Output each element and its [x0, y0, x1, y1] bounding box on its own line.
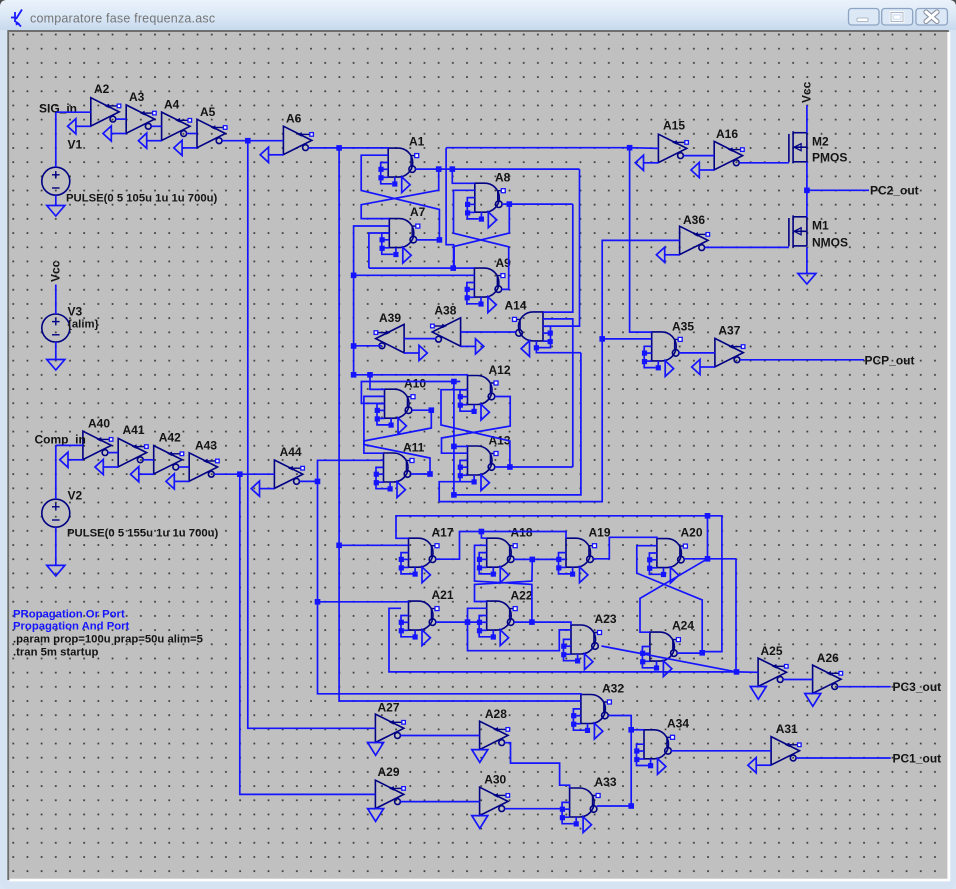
wire A8 out cross to A9 pin1	[454, 204, 509, 268]
nand gate A10	[375, 389, 415, 434]
label A14	[505, 299, 527, 313]
svg-text:A23: A23	[595, 612, 617, 626]
wire A17 out over to A18 and A19	[436, 532, 566, 560]
wire A42 out to A43 in	[179, 466, 190, 468]
buffer A40	[60, 431, 113, 467]
svg-text:V1: V1	[68, 138, 83, 152]
nand gate A34	[634, 730, 674, 775]
label A22	[511, 589, 533, 603]
buffer A25	[750, 658, 788, 699]
wire A20 out row	[684, 558, 736, 560]
wire A20-A24 cross upper	[640, 559, 708, 632]
label A37	[718, 324, 740, 338]
wire A29 out to A30	[400, 801, 479, 803]
buffer A28	[472, 721, 510, 762]
svg-text:A40: A40	[88, 417, 110, 431]
wire A38 out to A39 in	[404, 338, 436, 341]
nand gate A9	[465, 268, 505, 313]
buffer A15	[635, 134, 688, 170]
wire Comp_in to A40	[56, 444, 83, 446]
wire Vcc to M2 drain	[806, 105, 808, 132]
junction A44 net at A21 row	[315, 599, 321, 605]
wire loop down to A20 out node	[707, 516, 709, 559]
ground under V2	[47, 565, 65, 576]
wire A15 net to A15	[630, 147, 659, 150]
junction A43 output node	[237, 471, 243, 477]
svg-text:A29: A29	[378, 765, 400, 779]
junction A36 net at A35 row	[599, 336, 605, 342]
wire V2 top lead	[55, 445, 57, 499]
buffer A6	[260, 126, 313, 162]
wire A5 node down to A27	[248, 141, 376, 729]
wire A23 out slant	[602, 646, 737, 672]
wire A44 out up to A11 pin2	[318, 460, 384, 481]
buffer A2	[68, 98, 121, 134]
junction A1 output node	[436, 166, 442, 172]
svg-text:Vcc: Vcc	[49, 260, 63, 282]
ground under V1	[47, 206, 65, 217]
label A28	[485, 707, 507, 721]
nand gate A20	[647, 539, 687, 584]
junction net353 at A9 row	[351, 273, 357, 279]
nand gate A33	[560, 788, 600, 833]
wire A36 out to M1 gate	[705, 246, 789, 248]
label A15	[663, 119, 685, 133]
wire A21 out to A22 cluster	[436, 621, 480, 623]
wire A30 out to A33 cluster	[505, 808, 563, 810]
directive .param	[13, 634, 203, 646]
svg-text:Propagation And Port: Propagation And Port	[13, 621, 130, 633]
junction A6 output node	[336, 145, 342, 151]
svg-text:M2: M2	[812, 135, 829, 149]
wire V3 top lead	[55, 285, 57, 315]
svg-text:Vcc: Vcc	[800, 81, 814, 103]
svg-text:.param prop=100u prap=50u alim: .param prop=100u prap=50u alim=5	[13, 634, 203, 646]
LTspice icon	[11, 10, 22, 27]
wire A10-A11 cross lower	[364, 396, 430, 474]
comment text line 1	[13, 609, 125, 621]
wire V3 bottom lead	[55, 342, 57, 360]
wire A44 out to node	[299, 480, 317, 482]
wire V2 bottom lead	[55, 527, 57, 565]
label NMOS	[812, 236, 848, 250]
nand gate A19	[556, 538, 596, 583]
net flag Vcc at M2	[800, 81, 814, 103]
wire A14 com to loop	[536, 348, 581, 353]
svg-text:A26: A26	[817, 651, 839, 665]
nand gate A32	[571, 695, 611, 740]
label A38	[434, 304, 456, 318]
label A3	[129, 90, 145, 104]
wire A28 out down to A33	[505, 743, 570, 789]
svg-text:A5: A5	[200, 105, 216, 119]
junction A10 pin1 tap	[367, 372, 373, 378]
buffer A38	[431, 318, 484, 354]
junction A13 pin1 tap	[451, 444, 457, 450]
svg-text:PRopagation Or Port: PRopagation Or Port	[13, 609, 125, 621]
buffer A37	[692, 338, 745, 374]
net flag Vcc at V3	[49, 260, 63, 282]
nand gate A8	[465, 183, 505, 228]
svg-text:A12: A12	[489, 363, 511, 377]
label A8	[495, 171, 511, 185]
value V2	[67, 528, 219, 540]
ground under M1	[798, 274, 816, 285]
label A20	[681, 526, 703, 540]
label A10	[404, 377, 426, 391]
svg-text:A32: A32	[602, 682, 624, 696]
nand gate A12	[458, 376, 498, 421]
junction A20 output node	[705, 556, 711, 562]
svg-text:A35: A35	[672, 320, 694, 334]
wire A5 out to A6 in	[222, 140, 283, 142]
junction A34 pin1 tap	[628, 727, 634, 733]
net label PC2_out	[870, 184, 919, 198]
svg-text:.tran 5m startup: .tran 5m startup	[13, 647, 98, 659]
title bar	[0, 0, 956, 30]
wire A11 out row	[411, 473, 430, 475]
svg-text:NMOS: NMOS	[812, 236, 848, 250]
wire A3 out to A4 in	[151, 125, 161, 127]
maximize button	[882, 9, 913, 26]
wire A44 node down	[318, 481, 581, 695]
wire tap down to A10 pin1	[370, 375, 385, 390]
buffer A29	[368, 780, 406, 821]
svg-text:A3: A3	[129, 90, 145, 104]
nand gate A14	[513, 312, 553, 357]
junction A13 output node	[507, 464, 513, 470]
close button	[916, 9, 948, 26]
wire A1-A7 cross lower	[361, 155, 439, 240]
wire tap down to A18 pin1	[481, 532, 486, 539]
wire tap to A34 pin1	[631, 729, 644, 731]
svg-text:A25: A25	[761, 644, 783, 658]
label M2	[812, 135, 829, 149]
junction A11 output node	[427, 471, 433, 477]
wire A34 out to A31	[671, 750, 771, 752]
mosfet M2 PMOS	[789, 131, 807, 163]
nand gate A23	[561, 625, 601, 670]
wire A41 out to A42 in	[143, 459, 154, 461]
junction net353 at A39 out	[351, 343, 357, 349]
svg-text:A1: A1	[409, 135, 425, 149]
svg-text:A4: A4	[164, 98, 180, 112]
label A26	[817, 651, 839, 665]
wire A21 out loop to A22 pin2	[468, 608, 487, 622]
svg-text:M1: M1	[812, 219, 829, 233]
svg-text:A31: A31	[776, 722, 798, 736]
svg-text:A44: A44	[280, 445, 302, 459]
wire A7 out to node	[417, 239, 440, 241]
wire A18 out cross to A22 pin1	[475, 559, 533, 601]
wire A22 out cross to A18 pin2	[475, 545, 532, 622]
wire A40 out to A41 in	[108, 452, 118, 454]
buffer A5	[174, 119, 227, 155]
wire A36 input net	[439, 240, 679, 501]
net label SIG_in	[39, 102, 77, 116]
junction loop above A20	[705, 513, 711, 519]
wire A1 row down to A8 pin1	[452, 169, 475, 183]
label A1	[409, 135, 425, 149]
svg-text:PC3_out: PC3_out	[893, 680, 942, 694]
label A36	[683, 213, 705, 227]
svg-text:PMOS: PMOS	[812, 151, 847, 165]
buffer A30	[472, 787, 510, 828]
svg-text:A6: A6	[286, 112, 302, 126]
wire A24 feedback loop	[396, 516, 722, 652]
net label Comp_in	[35, 433, 86, 447]
wire A43 out to A44 in	[214, 473, 274, 475]
buffer A3	[103, 105, 156, 141]
wire A1-A7 cross upper	[361, 169, 439, 219]
label A5	[200, 105, 216, 119]
svg-text:V2: V2	[68, 489, 83, 503]
junction A25 input node	[734, 669, 740, 675]
wire A27 out to A28	[400, 735, 479, 737]
label A12	[489, 363, 511, 377]
nand gate A17	[399, 538, 439, 583]
label A30	[484, 773, 506, 787]
wire A8 out row	[502, 203, 573, 205]
svg-text:PULSE(0 5 155u 1u 1u 700u): PULSE(0 5 155u 1u 1u 700u)	[67, 528, 219, 540]
svg-text:A18: A18	[511, 526, 533, 540]
net label PCP_out	[865, 354, 915, 368]
buffer A31	[748, 737, 801, 773]
svg-text:A41: A41	[123, 423, 145, 437]
junction A8 output node	[507, 201, 513, 207]
nand gate A11	[374, 453, 414, 498]
wire A31 out to PC1_out	[796, 757, 891, 759]
wire A18 out row	[514, 558, 559, 560]
wire A37 out to PCP_out	[740, 359, 864, 361]
label V1	[68, 138, 83, 152]
voltage source V1	[42, 167, 70, 195]
wire A14 out to A38 in	[461, 331, 516, 333]
net label PC3_out	[893, 680, 942, 694]
nand gate A24	[640, 632, 680, 677]
svg-text:A34: A34	[667, 717, 689, 731]
label A32	[602, 682, 624, 696]
voltage source V2	[42, 499, 70, 527]
wire A9 out cross to A8 pin2	[454, 190, 509, 289]
label A18	[511, 526, 533, 540]
svg-text:A14: A14	[505, 299, 527, 313]
svg-text:A43: A43	[195, 439, 217, 453]
label V2	[68, 489, 83, 503]
wire A9 pin1 row left tail to A7 pin3	[369, 233, 389, 268]
wire V1 bottom lead	[55, 195, 57, 205]
svg-text:A42: A42	[159, 431, 181, 445]
svg-text:A2: A2	[94, 82, 110, 96]
svg-text:A37: A37	[718, 324, 740, 338]
svg-text:SIG_in: SIG_in	[39, 102, 77, 116]
svg-text:A27: A27	[378, 701, 400, 715]
wire A16 out to M2 gate	[739, 162, 789, 164]
label A44	[280, 445, 302, 459]
label A19	[589, 526, 611, 540]
buffer A41	[95, 438, 148, 474]
wire A32 out down	[609, 716, 632, 807]
svg-text:A20: A20	[681, 526, 703, 540]
label A31	[776, 722, 798, 736]
nand gate A21	[399, 601, 439, 646]
svg-text:A15: A15	[663, 119, 685, 133]
buffer A39	[374, 324, 427, 360]
svg-text:A33: A33	[595, 775, 617, 789]
wire A35 out to A37	[679, 352, 715, 354]
nand gate A35	[642, 332, 682, 377]
wire SIG_in to A2	[56, 111, 91, 113]
screen corner artifacts	[0, 0, 7, 7]
ground under V3	[47, 360, 65, 371]
junction A18 output node	[530, 557, 536, 563]
wire A10-A11 cross upper	[364, 410, 431, 453]
wire M2 source to M1 drain	[806, 162, 808, 217]
svg-text:A30: A30	[484, 773, 506, 787]
wire A7 pin2 vertical net	[354, 226, 390, 375]
buffer A4	[138, 112, 191, 148]
label A33	[595, 775, 617, 789]
wire A23 pin2 riser	[468, 622, 572, 651]
svg-text:PULSE(0 5 105u 1u 1u 700u): PULSE(0 5 105u 1u 1u 700u)	[66, 193, 218, 205]
label M1	[812, 219, 829, 233]
label A34	[667, 717, 689, 731]
label A40	[88, 417, 110, 431]
label A29	[378, 765, 400, 779]
label A6	[286, 112, 302, 126]
label A21	[432, 588, 454, 602]
wire A20-A24 cross lower	[637, 546, 702, 653]
wire A13 out row	[495, 466, 573, 468]
wire A8 out to A14 pin1	[543, 204, 573, 312]
junction A9 pin1 node	[450, 265, 456, 271]
wire A20 out down to A25 row	[735, 559, 737, 672]
nand gate A7	[380, 219, 420, 264]
junction A24 output node	[699, 650, 705, 656]
svg-text:A7: A7	[410, 205, 426, 219]
junction A18 pin1 tap	[479, 529, 485, 535]
wire A24 out row	[677, 652, 702, 654]
wire A10 out row	[412, 409, 432, 411]
wire A36 net to A35 pin2	[602, 338, 652, 340]
wire A13 out up to A14 pin2	[543, 319, 573, 467]
buffer A43	[166, 453, 219, 489]
wire A26 out to PC3_out	[838, 686, 891, 688]
wire tap to A13 pin1	[454, 445, 468, 447]
label A2	[94, 82, 110, 96]
wire A19 out to A20 pin1	[593, 537, 657, 559]
wire A15 net down to A35	[630, 148, 652, 332]
svg-text:A21: A21	[432, 588, 454, 602]
wire A15 net horizontal	[446, 147, 629, 149]
svg-text:A36: A36	[683, 213, 705, 227]
value V1	[66, 193, 218, 205]
wire M1 source to ground	[806, 247, 808, 273]
wire net353 to A12 pin1 row	[354, 374, 468, 376]
svg-text:A28: A28	[485, 707, 507, 721]
wire A43 node down to A29	[240, 474, 376, 794]
wire A25 input	[737, 671, 759, 673]
label PMOS	[812, 151, 847, 165]
wire V1 top lead	[55, 112, 57, 167]
svg-text:A38: A38	[434, 304, 456, 318]
svg-text:A39: A39	[379, 311, 401, 325]
junction A22 out at cross	[529, 619, 535, 625]
wire A21 loop to A25 row	[389, 608, 737, 672]
svg-text:Comp_in: Comp_in	[35, 433, 86, 447]
wire A33 out row	[597, 805, 631, 807]
wire A2 out to A3 in	[116, 118, 126, 120]
svg-text:A10: A10	[404, 377, 426, 391]
label A41	[123, 423, 145, 437]
label A16	[716, 127, 738, 141]
wire A6 net to A17 pin	[339, 544, 408, 546]
svg-text:A22: A22	[511, 589, 533, 603]
svg-text:V3: V3	[68, 305, 83, 319]
nand gate A22	[477, 601, 517, 646]
wire A1 out row	[415, 168, 579, 170]
wire A15 out to A16	[684, 155, 715, 157]
wire A15 net drop	[446, 148, 454, 268]
nand gate A1	[378, 148, 418, 193]
svg-text:A8: A8	[495, 171, 511, 185]
wire loop580 down to A13	[454, 353, 581, 495]
minimize button	[849, 9, 880, 26]
wire A44 net to A21 pin	[318, 601, 409, 603]
junction A5 output node	[245, 138, 251, 144]
wire A13 out cross	[441, 390, 510, 467]
wire A12 pin2 row to A10 pin3	[361, 382, 460, 404]
junction A21 output node	[465, 619, 471, 625]
wire A9 pin1 row	[369, 267, 475, 269]
junction A10 output node	[429, 407, 435, 413]
wire net353 to A9 pin2	[354, 274, 475, 276]
junction PC2_out node	[804, 188, 810, 194]
label V3	[68, 305, 83, 319]
nand gate A18	[477, 538, 517, 583]
label A17	[432, 526, 454, 540]
buffer A27	[368, 714, 406, 755]
wire A12 out cross	[442, 397, 511, 454]
wire A22 out row to A23	[514, 622, 571, 625]
buffer A26	[805, 665, 843, 706]
svg-text:{alim}: {alim}	[68, 319, 100, 331]
label A25	[761, 644, 783, 658]
label A27	[378, 701, 400, 715]
svg-text:A24: A24	[672, 619, 694, 633]
label A43	[195, 439, 217, 453]
junction A33 output node	[628, 803, 634, 809]
svg-text:PC1_out: PC1_out	[893, 752, 942, 766]
wire center vertical to loop row	[453, 382, 455, 495]
wire A1 row to A14 pin3	[543, 169, 580, 326]
wire A39 out to net353	[354, 345, 382, 347]
value V3	[68, 319, 100, 331]
label A35	[672, 320, 694, 334]
label A13	[489, 434, 511, 448]
label A7	[410, 205, 426, 219]
svg-text:comparatore fase frequenza.asc: comparatore fase frequenza.asc	[30, 12, 215, 26]
label A4	[164, 98, 180, 112]
label A39	[379, 311, 401, 325]
junction A44 output node	[315, 479, 321, 485]
label A42	[159, 431, 181, 445]
buffer A36	[656, 226, 709, 262]
net label PC1_out	[893, 752, 942, 766]
nand gate A13	[458, 446, 498, 491]
svg-text:A17: A17	[432, 526, 454, 540]
junction A7 output node	[437, 237, 443, 243]
